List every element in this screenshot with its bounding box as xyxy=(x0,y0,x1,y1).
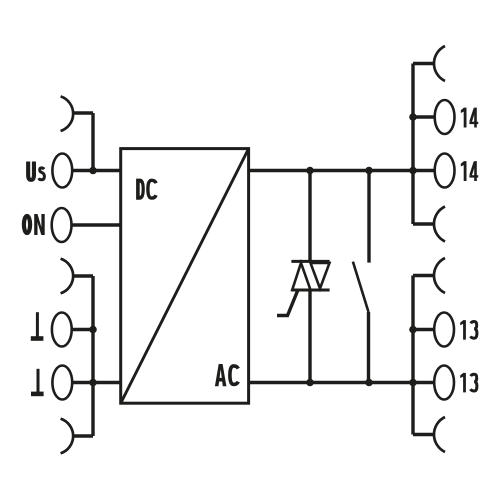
plug contact arc right 3 xyxy=(434,258,445,293)
wire stub to right mid arc xyxy=(413,222,435,225)
label Us xyxy=(26,162,44,182)
ground symbol 2 xyxy=(31,369,44,396)
wire left bottom bus vertical xyxy=(91,276,94,436)
terminal circle 14 lower xyxy=(435,154,455,188)
terminal circle ground 1 xyxy=(52,313,72,347)
plug contact arc left middle xyxy=(61,259,74,294)
wire left top bus vertical xyxy=(91,113,94,171)
wire ON to converter xyxy=(72,223,122,226)
switch blade S1 xyxy=(353,262,369,312)
junction dot ground 1 xyxy=(89,326,97,334)
label AC xyxy=(215,364,238,386)
wire switch branch lower xyxy=(367,312,370,383)
junction dot 14 upper xyxy=(409,113,417,121)
wire AC output line xyxy=(249,381,435,384)
wire stub to right top arc xyxy=(413,62,435,65)
wire stub to right arc 3 xyxy=(413,274,435,277)
wire switch branch upper xyxy=(367,171,370,263)
label ON xyxy=(24,214,45,235)
suppressor top bar xyxy=(291,260,329,263)
plug contact arc right top xyxy=(434,46,445,81)
pin label 13 lower xyxy=(460,373,477,393)
label DC xyxy=(136,179,156,200)
junction dot switch bottom xyxy=(365,379,373,387)
wire stub to right arc 4 xyxy=(413,433,435,436)
plug contact arc left top xyxy=(61,96,74,131)
wire DC output line xyxy=(249,169,435,172)
wire suppressor branch upper xyxy=(308,171,311,262)
junction dot 13 lower xyxy=(409,379,417,387)
terminal circle 13 upper xyxy=(434,313,454,347)
wire stub to terminal 14 upper xyxy=(413,115,435,118)
wire from left bottom arc to bus xyxy=(74,434,93,437)
plug contact arc left bottom xyxy=(61,419,74,454)
wire ground 2 to converter xyxy=(72,381,121,384)
terminal circle 13 lower xyxy=(434,366,454,400)
terminal circle Us xyxy=(52,154,72,188)
converter diagonal xyxy=(121,149,249,404)
terminal circle 14 upper xyxy=(435,100,455,134)
wire stub to terminal 13 upper xyxy=(413,328,434,331)
terminal circle ground 2 xyxy=(52,366,72,400)
junction dot suppressor bottom xyxy=(306,379,314,387)
ground symbol 1 xyxy=(31,312,44,341)
suppressor triangle down xyxy=(311,263,330,289)
junction dot ground 2 xyxy=(89,379,97,387)
wire from left middle arc to bus xyxy=(72,274,93,277)
suppressor gate tail xyxy=(277,291,298,316)
junction dot suppressor top xyxy=(306,167,314,175)
plug contact arc right mid xyxy=(434,207,445,242)
wire suppressor branch lower xyxy=(308,290,311,383)
suppressor triangle up xyxy=(292,263,310,290)
junction dot 14 lower xyxy=(409,167,417,175)
pin label 13 upper xyxy=(460,320,477,340)
pin label 14 upper xyxy=(461,108,478,128)
junction dot switch top xyxy=(365,167,373,175)
wire right top bus vertical xyxy=(411,64,414,225)
junction dot 13 upper xyxy=(409,326,417,334)
terminal circle ON xyxy=(52,208,72,242)
suppressor bottom bar xyxy=(291,289,329,292)
wire Us to converter xyxy=(72,169,121,172)
wire ground 1 to bus xyxy=(72,328,93,331)
converter box U1 xyxy=(121,149,249,404)
junction dot Us bus xyxy=(89,167,97,175)
wire right bottom bus vertical xyxy=(411,276,414,435)
pin label 14 lower xyxy=(461,161,478,181)
plug contact arc right 4 xyxy=(434,417,445,452)
wire from left top arc to bus xyxy=(73,111,93,114)
